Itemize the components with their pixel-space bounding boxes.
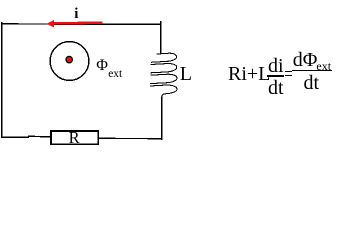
label Phi_ext (external flux) [96, 58, 108, 74]
wire: top horizontal [1, 23, 161, 26]
label L (inductor) [180, 64, 192, 84]
label i (current) [74, 7, 78, 22]
equation Ri + L di/dt = dPhi_ext/dt [228, 64, 270, 84]
resistor R (box) [51, 131, 98, 144]
wire: right vertical bottom segment (inductor to bottom) [161, 97, 163, 140]
wire: bottom horizontal left segment [1, 136, 29, 138]
flux dot (field out of page) [66, 56, 72, 62]
label R (resistor) [69, 130, 80, 147]
wire: left vertical [1, 22, 3, 138]
wire: bottom horizontal right segment (resistor to corner) [99, 137, 163, 139]
flux area circle [50, 42, 89, 81]
current arrow (red, pointing left) [53, 21, 102, 24]
wire: right vertical top segment (to inductor) [160, 21, 162, 53]
inductor L (coil) [151, 53, 177, 62]
wire: bottom horizontal left segment 2 (to resistor) [28, 135, 51, 138]
